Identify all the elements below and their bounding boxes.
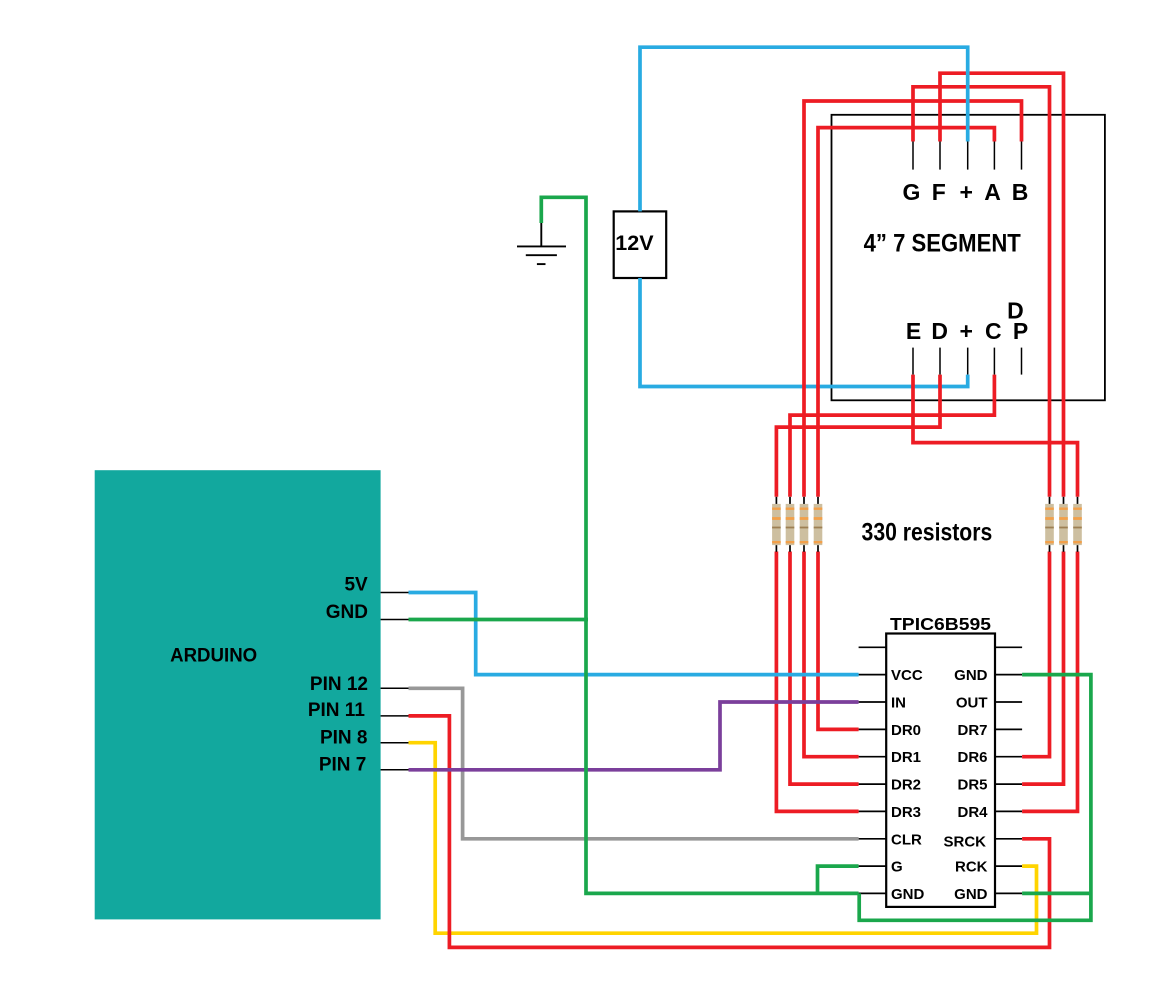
svg-text:A: A [984, 179, 1001, 205]
svg-text:C: C [985, 318, 1002, 344]
svg-text:ARDUINO: ARDUINO [170, 645, 257, 666]
svg-text:PIN 8: PIN 8 [320, 727, 368, 748]
svg-text:330 resistors: 330 resistors [862, 518, 993, 546]
svg-text:OUT: OUT [956, 695, 988, 712]
svg-text:D: D [931, 318, 948, 344]
svg-text:5V: 5V [344, 575, 368, 596]
svg-text:GND: GND [891, 886, 925, 903]
svg-text:VCC: VCC [891, 667, 923, 684]
svg-text:G: G [891, 859, 903, 876]
svg-text:PIN 12: PIN 12 [310, 674, 368, 695]
svg-text:RCK: RCK [955, 859, 988, 876]
svg-text:E: E [906, 318, 921, 344]
svg-text:DR3: DR3 [891, 804, 921, 821]
svg-text:+: + [959, 318, 972, 344]
svg-text:SRCK: SRCK [943, 834, 986, 851]
svg-text:CLR: CLR [891, 831, 922, 848]
svg-text:G: G [903, 179, 921, 205]
svg-text:DR0: DR0 [891, 722, 921, 739]
svg-text:12V: 12V [615, 231, 654, 255]
svg-text:DR5: DR5 [957, 777, 987, 794]
svg-text:P: P [1013, 318, 1028, 344]
svg-text:B: B [1012, 179, 1029, 205]
svg-text:DR2: DR2 [891, 777, 921, 794]
svg-text:PIN 7: PIN 7 [319, 754, 367, 775]
svg-text:F: F [932, 179, 946, 205]
svg-text:GND: GND [954, 667, 988, 684]
svg-text:GND: GND [326, 602, 368, 623]
svg-text:DR6: DR6 [957, 749, 987, 766]
svg-text:4” 7 SEGMENT: 4” 7 SEGMENT [864, 230, 1021, 258]
svg-text:+: + [959, 179, 972, 205]
svg-text:DR1: DR1 [891, 749, 921, 766]
svg-text:DR7: DR7 [957, 722, 987, 739]
svg-text:PIN 11: PIN 11 [308, 700, 365, 721]
svg-text:TPIC6B595: TPIC6B595 [890, 614, 991, 634]
svg-text:GND: GND [954, 886, 988, 903]
svg-text:DR4: DR4 [957, 804, 988, 821]
svg-text:IN: IN [891, 695, 906, 712]
